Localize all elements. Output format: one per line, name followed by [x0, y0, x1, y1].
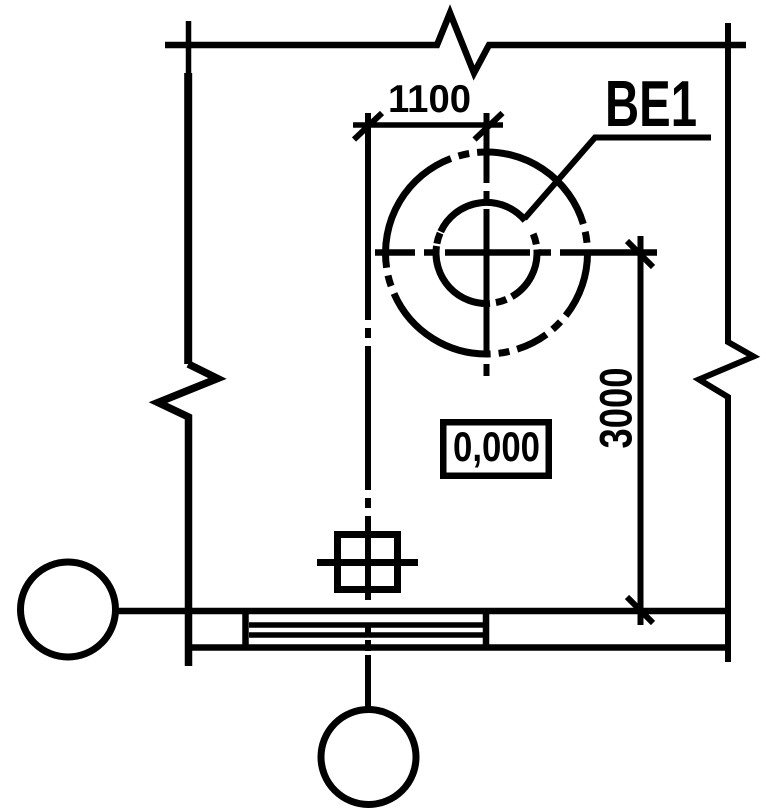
svg-text:1100: 1100 [388, 78, 471, 121]
svg-text:3000: 3000 [591, 368, 642, 449]
svg-text:0,000: 0,000 [453, 423, 540, 470]
svg-text:BE1: BE1 [605, 67, 697, 140]
